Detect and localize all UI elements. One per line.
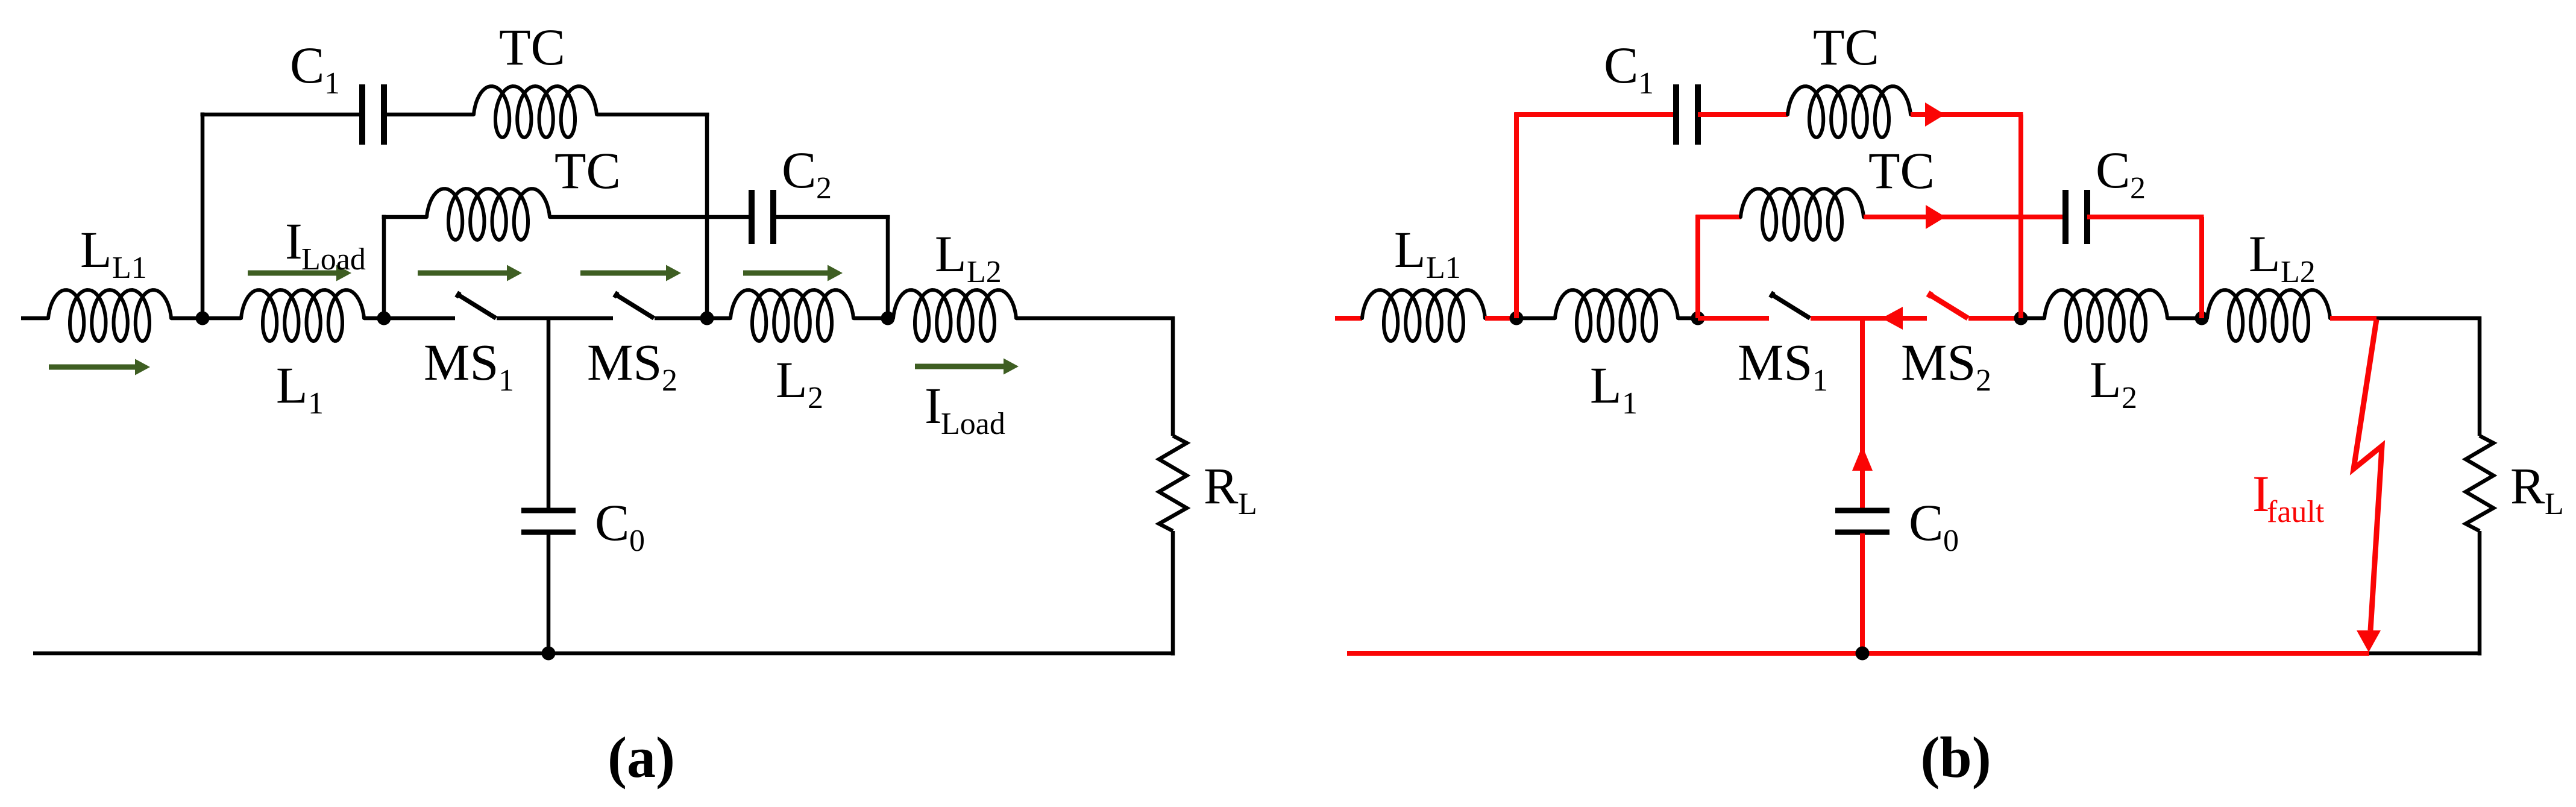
svg-text:1: 1: [308, 386, 324, 421]
wire: L1 to node B: [1678, 316, 1698, 321]
wire: C0 branch lower: [547, 533, 551, 653]
svg-text:C: C: [1604, 36, 1638, 94]
wire: L2 to node D: [853, 316, 888, 321]
inductor L_L2: [2207, 290, 2330, 341]
wire: top rail to C1: [1515, 112, 1677, 117]
wire: node D to L_L2: [2202, 316, 2207, 321]
wire: C0 branch upper: [1860, 318, 1865, 509]
wire: L1 to node B: [364, 316, 384, 321]
svg-text:I: I: [285, 212, 303, 270]
wire: fault point to right corner: [2377, 316, 2481, 321]
red arrowhead on middle rail: [1926, 205, 1946, 229]
node A junction: [196, 312, 210, 325]
svg-text:2: 2: [808, 381, 823, 415]
wire: node B to switch MS1: [384, 316, 455, 321]
wire: right vertical above R_L: [1171, 316, 1175, 436]
svg-text:L1: L1: [1426, 251, 1461, 285]
svg-text:(a): (a): [608, 725, 675, 790]
svg-text:TC: TC: [1868, 142, 1935, 199]
wire: MS2 to node C: [655, 316, 707, 321]
svg-text:MS: MS: [587, 333, 662, 391]
svg-text:fault: fault: [2267, 495, 2325, 529]
wire: L_L1 to node A: [1485, 316, 1516, 321]
wire: mid-right corner down to node D: [2199, 217, 2204, 318]
wire: left stub: [1335, 316, 1362, 321]
fault lightning bolt: [2354, 319, 2382, 630]
svg-text:L: L: [2249, 225, 2281, 283]
inductor TC (top): [1788, 86, 1911, 137]
svg-text:(b): (b): [1920, 725, 1991, 790]
svg-text:L: L: [2090, 351, 2122, 409]
node D junction: [2195, 312, 2209, 325]
wire: right vertical above R_L: [2478, 316, 2482, 436]
capacitor C1: [359, 84, 365, 145]
svg-text:L: L: [776, 351, 808, 409]
junction C0-bottom rail: [1856, 647, 1870, 661]
wire: C0 branch lower: [1860, 533, 1865, 653]
capacitor C1: [1673, 84, 1679, 145]
bottom rail right (black): [2369, 652, 2481, 656]
wire: top-right corner down to node C: [2018, 115, 2023, 318]
svg-text:0: 0: [1943, 524, 1959, 558]
svg-text:TC: TC: [499, 18, 565, 76]
wire: C2 to mid-right corner: [773, 215, 890, 219]
fault arrowhead: [2357, 630, 2381, 652]
node A junction: [1510, 312, 1524, 325]
svg-text:C: C: [2096, 141, 2130, 199]
svg-text:L: L: [80, 221, 112, 278]
svg-text:C: C: [595, 494, 629, 551]
red arrowhead up on C0 branch: [1852, 446, 1873, 471]
wire: TC coil to top-right corner: [1911, 112, 2023, 117]
current arrow above MS1: [418, 271, 509, 276]
svg-text:Load: Load: [301, 242, 366, 277]
svg-text:C: C: [290, 36, 324, 94]
wire: node C to L2: [707, 316, 730, 321]
svg-text:2: 2: [662, 363, 677, 398]
wire: node A up to top rail: [1514, 113, 1519, 319]
wire: MS2 to node C: [1968, 316, 2021, 321]
wire: top-right corner down to node C: [705, 115, 709, 318]
wire: C1 to TC coil: [1698, 112, 1788, 117]
wire: C1 to TC coil: [384, 113, 474, 117]
wire: TC coil to C2: [550, 215, 752, 219]
svg-text:TC: TC: [1813, 18, 1879, 76]
capacitor C2: [749, 190, 755, 244]
red arrowhead on top rail: [1925, 102, 1945, 127]
wire: node C to L2: [2021, 316, 2044, 321]
svg-text:MS: MS: [1738, 333, 1812, 391]
svg-text:L: L: [935, 225, 967, 283]
svg-text:L: L: [1394, 221, 1426, 278]
svg-text:C: C: [782, 141, 816, 199]
wire: MS1 to MS2 (C0 tap): [497, 316, 613, 321]
svg-text:MS: MS: [1901, 333, 1976, 391]
inductor TC (middle): [427, 189, 550, 240]
svg-text:I: I: [925, 377, 942, 435]
bottom rail: [33, 652, 1175, 656]
inductor L_L2: [893, 290, 1016, 341]
wire: node B to switch MS1: [1698, 316, 1769, 321]
wire: top rail to C1: [201, 113, 363, 117]
current arrow after L_L2: [915, 364, 1006, 369]
wire: node D to L_L2: [888, 316, 893, 321]
wire: right vertical below R_L: [2478, 531, 2482, 656]
node C junction: [2014, 312, 2028, 325]
wire: left stub: [21, 316, 48, 321]
current arrow above MS2: [580, 271, 668, 276]
wire: L_L2 to right corner: [1016, 316, 1175, 321]
svg-text:L2: L2: [967, 255, 1002, 289]
svg-text:L: L: [276, 356, 308, 414]
bottom rail (red fault return): [1347, 651, 2369, 656]
wire: node B up to middle rail: [1695, 215, 1700, 319]
svg-text:L1: L1: [112, 251, 147, 285]
inductor TC (middle): [1741, 189, 1864, 240]
inductor L_L1: [1362, 290, 1485, 341]
svg-text:R: R: [1204, 457, 1239, 515]
junction C0-bottom rail: [542, 647, 556, 661]
wire: node A to L1: [203, 316, 241, 321]
inductor L2: [730, 290, 853, 341]
switch MS1: [1770, 292, 1774, 297]
inductor TC (top): [474, 86, 597, 137]
wire: middle rail to TC coil: [1696, 215, 1741, 219]
switch MS2: [614, 292, 618, 297]
svg-text:C: C: [1909, 494, 1943, 551]
svg-text:1: 1: [324, 66, 340, 101]
node D junction: [881, 312, 895, 325]
switch MS2: [1928, 292, 1932, 297]
inductor L1: [1555, 290, 1678, 341]
svg-text:1: 1: [1812, 363, 1828, 398]
svg-text:MS: MS: [424, 333, 498, 391]
wire: L2 to node D: [2167, 316, 2202, 321]
resistor R_L: [2466, 436, 2493, 531]
wire: node A up to top rail: [201, 113, 205, 319]
wire: mid-right corner down to node D: [886, 217, 890, 318]
svg-text:L: L: [2545, 487, 2564, 521]
svg-text:R: R: [2510, 457, 2545, 515]
wire: right vertical below R_L: [1171, 531, 1175, 656]
switch MS1: [456, 292, 460, 297]
svg-text:2: 2: [2130, 171, 2146, 206]
svg-text:2: 2: [816, 171, 832, 206]
wire: L_L2 to fault point (red): [2330, 316, 2377, 321]
wire: node A to L1: [1516, 316, 1555, 321]
wire: TC coil to C2: [1864, 215, 2066, 219]
svg-text:L: L: [1238, 487, 1257, 521]
inductor L1: [241, 290, 364, 341]
inductor L2: [2044, 290, 2167, 341]
wire: MS1 to MS2 (C0 tap): [1811, 316, 1927, 321]
svg-text:TC: TC: [554, 142, 621, 199]
svg-text:L: L: [1590, 356, 1622, 414]
wire: middle rail to TC coil: [382, 215, 427, 219]
current arrow I (left, below line): [49, 365, 137, 370]
svg-text:Load: Load: [941, 407, 1005, 441]
wire: TC coil to top-right corner: [597, 113, 709, 117]
svg-text:0: 0: [629, 524, 645, 558]
capacitor C2: [2062, 190, 2069, 244]
svg-text:2: 2: [2122, 381, 2137, 415]
svg-text:1: 1: [498, 363, 514, 398]
node B junction: [377, 312, 391, 325]
capacitor C0: [1835, 508, 1890, 513]
inductor L_L1: [48, 290, 171, 341]
wire: C2 to mid-right corner: [2087, 215, 2204, 219]
svg-text:L2: L2: [2281, 255, 2316, 289]
svg-text:1: 1: [1638, 66, 1654, 101]
red arrowhead toward C0 tap: [1882, 307, 1903, 330]
node C junction: [700, 312, 714, 325]
current arrow above L1: [248, 271, 339, 276]
wire: node B up to middle rail: [382, 215, 386, 319]
svg-text:2: 2: [1976, 363, 1991, 398]
resistor R_L: [1159, 436, 1187, 531]
current arrow above L2: [743, 271, 830, 276]
svg-text:1: 1: [1622, 386, 1638, 421]
capacitor C0: [521, 508, 576, 513]
node B junction: [1691, 312, 1705, 325]
wire: L_L1 to node A: [171, 316, 203, 321]
wire: C0 branch upper: [547, 318, 551, 509]
